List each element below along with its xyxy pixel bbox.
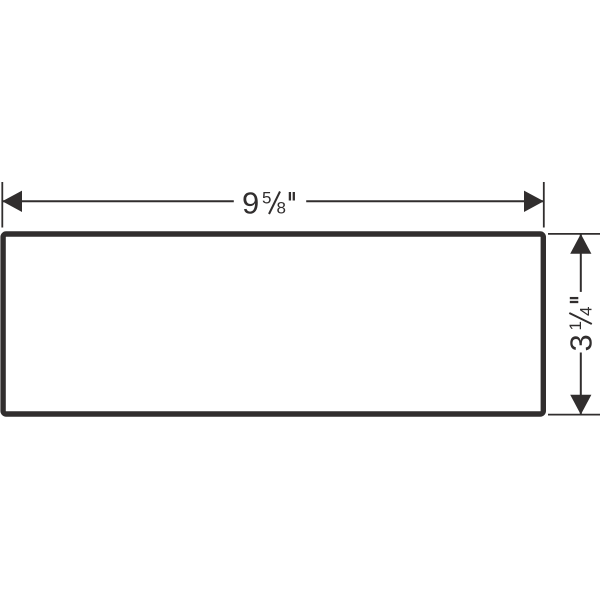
svg-text:4: 4 xyxy=(576,307,595,316)
svg-text:9: 9 xyxy=(242,186,259,221)
svg-text:3: 3 xyxy=(563,334,598,351)
svg-text:5: 5 xyxy=(262,188,271,207)
svg-text:1: 1 xyxy=(566,321,585,330)
svg-text:8: 8 xyxy=(277,199,286,218)
